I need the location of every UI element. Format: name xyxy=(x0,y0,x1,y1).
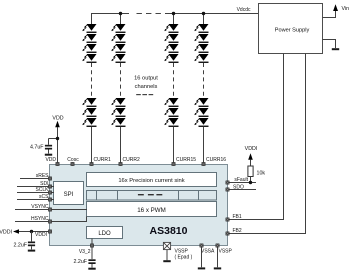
wire PSU Vin riser xyxy=(335,11,337,18)
wire LED string CURR1 dashed continuation xyxy=(91,63,93,97)
LED (string CURR15 bottom #3) xyxy=(164,118,178,127)
LED (string CURR16 top #3) xyxy=(194,44,208,53)
LED (string CURR2 top #4) xyxy=(111,54,125,63)
LED (string CURR2 bottom #1) xyxy=(111,98,125,107)
wire Vdcdc bus right segment xyxy=(165,13,259,15)
svg-text:Vin: Vin xyxy=(342,6,350,12)
ground VSSP xyxy=(214,267,221,269)
wire sFault lead xyxy=(228,182,257,184)
junction VDD-cap xyxy=(56,137,59,140)
LED (string CURR15 top #4) xyxy=(164,54,178,63)
svg-text:SCLK: SCLK xyxy=(35,187,49,193)
pin SDO xyxy=(226,188,229,191)
svg-text:CURR16: CURR16 xyxy=(206,157,226,163)
pin sRES xyxy=(48,177,51,180)
wire LED string CURR15 anode riser xyxy=(173,13,175,24)
ground Epad xyxy=(163,260,170,262)
wire Vdcdc bus dashed middle xyxy=(137,13,161,14)
svg-text:Vdcdc: Vdcdc xyxy=(237,7,251,13)
svg-text:4.7uF: 4.7uF xyxy=(30,144,44,150)
wire pullup bottom lead xyxy=(250,177,252,183)
svg-text:CURR2: CURR2 xyxy=(123,157,140,163)
wire pullup top lead xyxy=(250,160,252,167)
LED (string CURR16 bottom #2) xyxy=(194,108,208,117)
wire PSU Vin stub xyxy=(323,17,337,19)
svg-text:FB2: FB2 xyxy=(233,228,242,234)
svg-text:sFault: sFault xyxy=(234,177,248,183)
wire Epad gnd lead xyxy=(166,250,168,261)
wire LED string CURR15 dashed continuation xyxy=(173,63,175,97)
pin VSSP Epad xyxy=(163,242,170,249)
ground C3 xyxy=(88,268,95,270)
wire LED string CURR16 cathode to pin xyxy=(203,127,205,165)
wire cap C1 lead xyxy=(48,139,50,145)
capacitor C1 4.7uF xyxy=(45,145,52,150)
junction bus-CURR15 xyxy=(172,12,175,15)
wire HSYNC lead xyxy=(15,221,50,223)
pin SCLK xyxy=(48,191,51,194)
LED (string CURR1 bottom #2) xyxy=(82,108,96,117)
svg-text:FB1: FB1 xyxy=(233,214,242,220)
LED (string CURR2 bottom #2) xyxy=(111,108,125,117)
block: SPI xyxy=(54,182,84,205)
pin sFault xyxy=(226,181,229,184)
wire dashed more-channels marker xyxy=(136,94,153,95)
power arrow VDD xyxy=(55,121,60,127)
label VSSP (Epad) xyxy=(175,249,193,261)
pin CURR2 xyxy=(119,162,122,165)
wire SCLK lead xyxy=(17,192,50,194)
svg-text:V3_2: V3_2 xyxy=(79,249,91,255)
LED (string CURR1 top #3) xyxy=(82,44,96,53)
LED (string CURR16 bottom #1) xyxy=(194,98,208,107)
ground PSU xyxy=(332,48,339,50)
ground C1 xyxy=(45,154,52,156)
svg-text:2.2uF: 2.2uF xyxy=(13,242,27,248)
wire SDO lead xyxy=(228,189,257,191)
pin FB2 xyxy=(226,232,229,235)
pin Cosc xyxy=(71,162,74,165)
wire VDD cap branch xyxy=(49,138,58,140)
svg-text:SDO: SDO xyxy=(233,185,244,191)
pin VSYNC xyxy=(48,208,51,211)
junction bus-CURR16 xyxy=(202,12,205,15)
wire SDI lead xyxy=(17,186,50,188)
svg-text:16 x PWM: 16 x PWM xyxy=(137,207,166,214)
wire LED string CURR2 dashed continuation xyxy=(120,63,122,97)
wire PSU to FB2 vertical xyxy=(305,54,307,235)
wire LED string CURR1 cathode to pin xyxy=(91,127,93,165)
label 16 output channels xyxy=(134,76,158,91)
wire stub to SPI xyxy=(50,192,54,194)
ground VSSA xyxy=(198,267,205,269)
LED (string CURR1 top #2) xyxy=(82,34,96,43)
svg-text:VDDI: VDDI xyxy=(245,146,258,152)
ground C2 xyxy=(28,250,35,252)
LED (string CURR2 bottom #3) xyxy=(111,118,125,127)
svg-text:sCS: sCS xyxy=(39,194,49,200)
wire VDDI lead xyxy=(14,231,50,233)
wire PSU gnd stub xyxy=(323,39,337,41)
pin V3_2 xyxy=(90,244,93,247)
wire VDD riser xyxy=(57,127,59,164)
svg-text:sRES: sRES xyxy=(36,173,49,179)
svg-text:VSSP: VSSP xyxy=(219,249,233,255)
pin VSSA xyxy=(200,244,203,247)
power arrow VDDI pullup xyxy=(248,153,253,159)
wire HSYNC riser xyxy=(86,217,88,222)
junction VDDI-cap xyxy=(30,230,33,233)
LED (string CURR16 bottom #3) xyxy=(194,118,208,127)
wire C2 gnd lead xyxy=(31,246,33,249)
LED (string CURR15 top #1) xyxy=(164,24,178,33)
wire PSU to FB1 vertical xyxy=(283,54,285,221)
LED (string CURR15 top #3) xyxy=(164,44,178,53)
svg-text:VDDI: VDDI xyxy=(35,232,47,238)
svg-text:16x Precision current sink: 16x Precision current sink xyxy=(118,178,184,184)
wire C3 gnd lead xyxy=(91,264,93,268)
wire Vdcdc bus left segment xyxy=(91,13,129,15)
wire FB2 lead xyxy=(228,233,307,235)
LED (string CURR16 top #4) xyxy=(194,54,208,63)
pin CURR1 xyxy=(90,162,93,165)
junction sFault-pullup xyxy=(249,181,252,184)
IC AS3810 body xyxy=(50,165,228,246)
LED (string CURR15 top #2) xyxy=(164,34,178,43)
svg-text:10k: 10k xyxy=(257,171,266,177)
capacitor C3 2.2uF xyxy=(88,259,95,264)
svg-text:CURR1: CURR1 xyxy=(94,157,111,163)
pin sCS xyxy=(48,198,51,201)
pin FB1 xyxy=(226,218,229,221)
LED (string CURR2 top #3) xyxy=(111,44,125,53)
svg-text:VSYNC: VSYNC xyxy=(31,204,49,210)
wire LED string CURR1 anode riser xyxy=(91,13,93,24)
wire HSYNC to PWM xyxy=(50,221,87,223)
wire cap C1 gnd lead xyxy=(48,150,50,154)
resistor R1 10k xyxy=(248,166,253,177)
svg-text:VSSA: VSSA xyxy=(201,249,215,255)
svg-text:channels: channels xyxy=(135,84,158,90)
wire stub to SPI xyxy=(50,199,54,201)
svg-text:HSYNC: HSYNC xyxy=(31,216,49,222)
wire VSSA gnd lead xyxy=(201,247,203,267)
LED (string CURR15 bottom #1) xyxy=(164,98,178,107)
power supply U2 xyxy=(259,4,323,54)
LED (string CURR16 top #1) xyxy=(194,24,208,33)
block: 16 x PWM xyxy=(87,202,217,217)
svg-text:16 output: 16 output xyxy=(134,76,158,82)
LED (string CURR1 bottom #1) xyxy=(82,98,96,107)
svg-text:LDO: LDO xyxy=(98,231,111,237)
wire VSSP gnd lead xyxy=(217,247,219,267)
svg-text:VDD: VDD xyxy=(45,157,56,163)
LED (string CURR1 bottom #3) xyxy=(82,118,96,127)
pin CURR16 xyxy=(202,162,205,165)
svg-text:( Epad ): ( Epad ) xyxy=(175,255,193,261)
svg-text:SPI: SPI xyxy=(64,192,74,198)
pin SDI xyxy=(48,185,51,188)
svg-text:CURR15: CURR15 xyxy=(176,157,196,163)
wire LED string CURR2 cathode to pin xyxy=(120,127,122,165)
svg-text:VDDI: VDDI xyxy=(0,230,12,236)
wire sRES lead xyxy=(20,178,50,180)
LED (string CURR2 top #2) xyxy=(111,34,125,43)
capacitor C2 2.2uF xyxy=(28,242,35,247)
wire PSU gnd riser xyxy=(335,40,337,49)
svg-text:2.2uF: 2.2uF xyxy=(73,259,87,265)
wire LED string CURR15 cathode to pin xyxy=(173,127,175,165)
LED (string CURR15 bottom #2) xyxy=(164,108,178,117)
wire VDDI cap lead xyxy=(31,232,33,242)
pin VDDI xyxy=(48,230,51,233)
LED (string CURR1 top #1) xyxy=(82,24,96,33)
junction bus-CURR2 xyxy=(119,12,122,15)
wire sCS lead xyxy=(17,199,50,201)
wire LDO to V3_2 and cap xyxy=(91,239,93,260)
pin VDD xyxy=(56,162,59,165)
block: LDO xyxy=(87,227,123,239)
wire FB1 lead xyxy=(228,219,285,221)
LED (string CURR16 top #2) xyxy=(194,34,208,43)
power arrow Vin xyxy=(333,4,338,11)
power arrow VDDI (left) xyxy=(13,229,19,233)
block: current sink cell strip xyxy=(87,191,217,201)
wire LED string CURR2 anode riser xyxy=(120,13,122,24)
wire VSYNC to PWM xyxy=(50,209,87,211)
pin CURR15 xyxy=(172,162,175,165)
wire LED string CURR16 anode riser xyxy=(203,13,205,24)
wire LED string CURR16 dashed continuation xyxy=(203,63,205,97)
svg-text:AS3810: AS3810 xyxy=(150,225,188,237)
pin HSYNC xyxy=(48,220,51,223)
svg-text:Power Supply: Power Supply xyxy=(275,28,310,34)
block: 16x Precision current sink xyxy=(87,173,217,187)
pin VSSP xyxy=(216,244,219,247)
wire VSYNC lead xyxy=(15,209,50,211)
LED (string CURR2 top #1) xyxy=(111,24,125,33)
LED (string CURR1 top #4) xyxy=(82,54,96,63)
wire stub to SPI xyxy=(50,186,54,188)
svg-text:VDD: VDD xyxy=(52,116,63,122)
